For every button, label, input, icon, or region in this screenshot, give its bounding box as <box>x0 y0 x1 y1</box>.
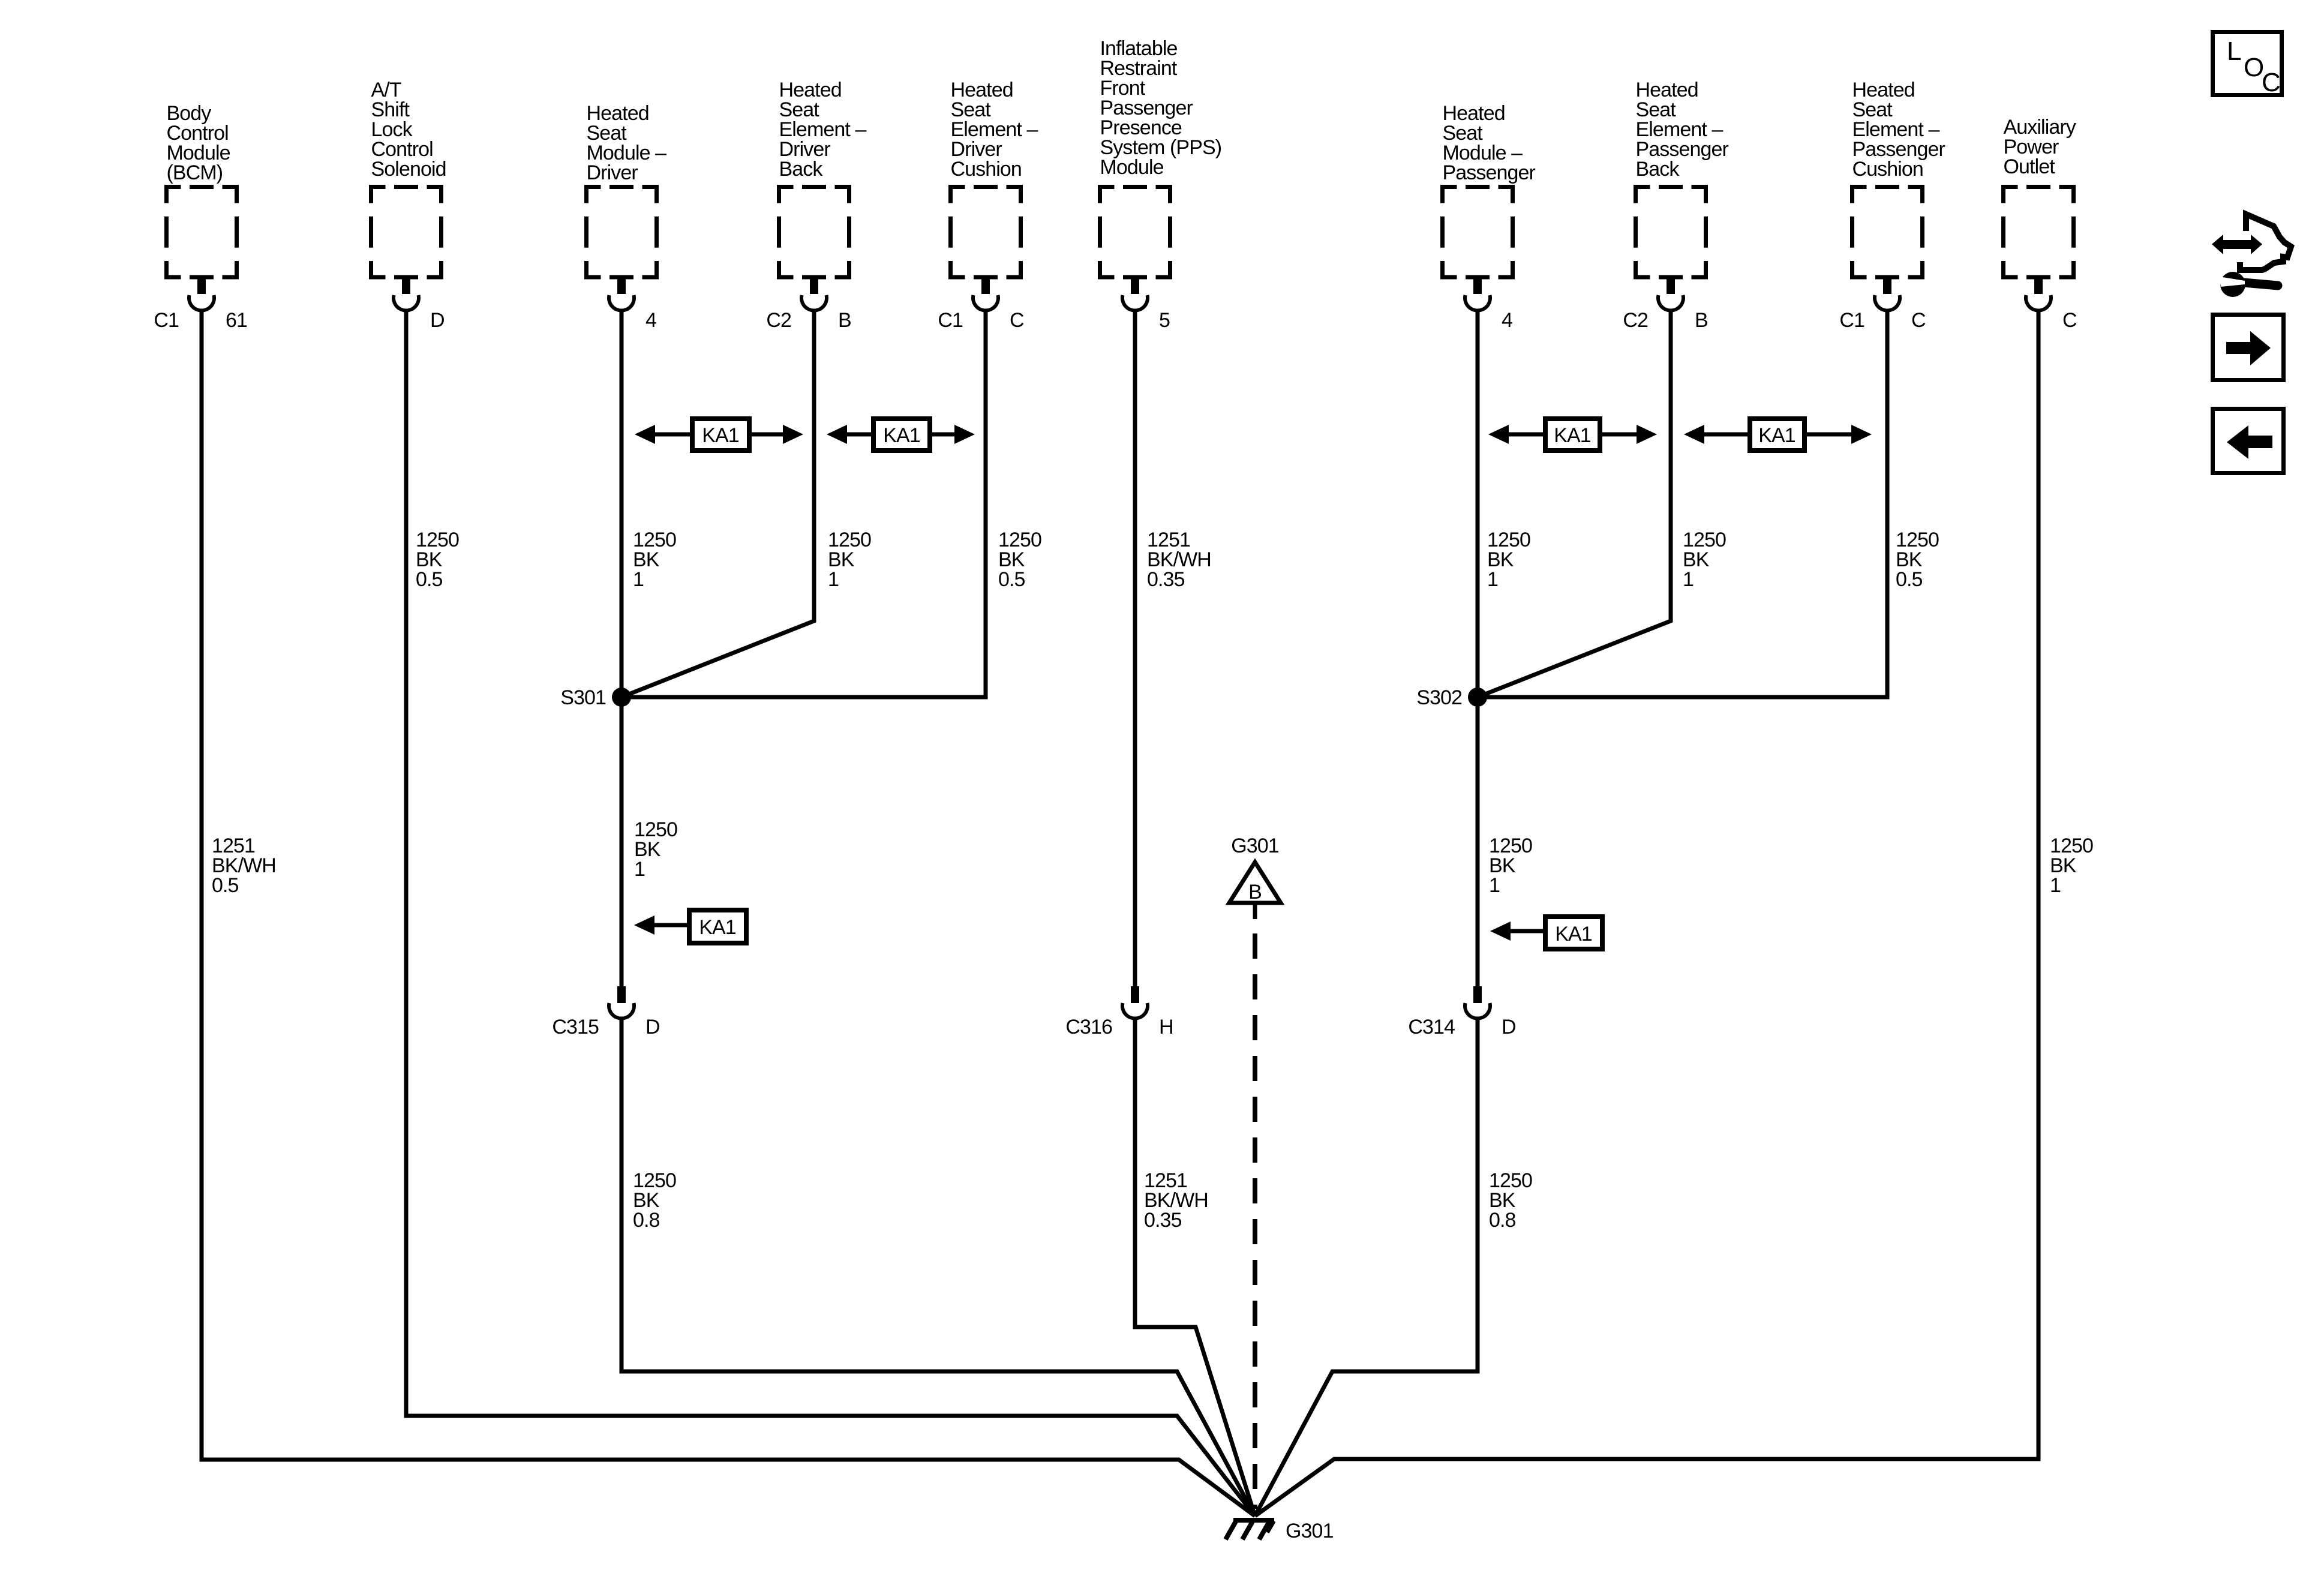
svg-text:L: L <box>2227 37 2241 66</box>
svg-text:1: 1 <box>633 568 644 591</box>
component Heated Seat Module - Driver: dashed box <box>587 187 657 278</box>
svg-text:1: 1 <box>828 568 839 591</box>
svg-text:0.8: 0.8 <box>633 1209 660 1232</box>
svg-text:B: B <box>838 309 851 332</box>
connector C315 symbol <box>617 986 626 1003</box>
svg-text:S302: S302 <box>1416 686 1462 709</box>
svg-text:KA1: KA1 <box>699 916 736 939</box>
harness arrow KA1 right toward driver cushion wire <box>932 433 954 437</box>
svg-text:Cushion: Cushion <box>1852 158 1923 181</box>
svg-text:C: C <box>2062 309 2077 332</box>
connector pin symbol at Heated Seat Element - Passenger Back <box>1667 277 1675 294</box>
ground reference triangle G301 (B) <box>1229 862 1281 903</box>
svg-text:C315: C315 <box>552 1016 599 1038</box>
svg-text:B: B <box>1248 881 1262 903</box>
svg-text:C: C <box>1911 309 1926 332</box>
connector pin symbol at A/T Shift Lock Control Solenoid <box>402 277 410 294</box>
svg-text:4: 4 <box>645 309 656 332</box>
svg-text:0.8: 0.8 <box>1489 1209 1516 1232</box>
svg-text:C: C <box>1010 309 1024 332</box>
svg-text:C316: C316 <box>1065 1016 1112 1038</box>
legend icon: harness routing / tool symbol <box>2212 235 2262 254</box>
component Body Control Module (BCM): dashed box <box>167 187 237 278</box>
wrench part of tool icon <box>2220 272 2245 297</box>
label box KA1 (between driver back and driver cushion) <box>873 419 930 451</box>
svg-text:S301: S301 <box>560 686 606 709</box>
wire 1251 BK/WH 0.35 from C316 H to G301 <box>1135 1020 1255 1516</box>
harness arrow KA1 toward C314 wire <box>1511 929 1543 933</box>
svg-text:Back: Back <box>779 158 824 181</box>
harness arrow KA1 right toward driver back wire <box>752 433 783 437</box>
harness arrow KA1 right toward passenger back wire <box>1602 433 1637 437</box>
splice S301 junction dot <box>612 688 631 707</box>
legend icon: arrow right box <box>2213 315 2284 380</box>
label box KA1 (between heated seat module driver and element back) <box>692 419 749 451</box>
harness arrow KA1 left toward driver module wire <box>645 433 690 437</box>
wire 1250 BK 1 from Auxiliary Power Outlet C to G301 <box>1255 310 2038 1516</box>
svg-text:1: 1 <box>1489 874 1500 897</box>
wire dashed ground lead from triangle B to G301 <box>1253 933 1257 1509</box>
harness arrow KA1 left toward driver back wire <box>847 433 871 437</box>
connector pin symbol at Auxiliary Power Outlet <box>2034 277 2043 294</box>
connector pin symbol at Heated Seat Element - Passenger Cushion <box>1883 277 1891 294</box>
component A/T Shift Lock Control Solenoid: dashed box <box>371 187 442 278</box>
wire 1250 BK 0.5 from Heated Seat Element Driver Cushion C to S301 <box>621 310 986 697</box>
svg-text:D: D <box>1502 1016 1516 1038</box>
connector C316 symbol <box>1131 986 1139 1003</box>
svg-text:0.5: 0.5 <box>1896 568 1923 591</box>
wire solid stem below triangle <box>1253 905 1257 919</box>
svg-text:Solenoid: Solenoid <box>371 158 446 181</box>
svg-text:0.5: 0.5 <box>212 874 239 897</box>
svg-text:4: 4 <box>1502 309 1512 332</box>
svg-text:C2: C2 <box>1623 309 1648 332</box>
svg-text:C1: C1 <box>154 309 179 332</box>
connector pin symbol at Heated Seat Element - Driver Back <box>810 277 818 294</box>
svg-text:C1: C1 <box>938 309 963 332</box>
wire 1251 BK/WH 0.5 from BCM C1-61 to G301 <box>202 310 1255 1516</box>
svg-text:0.35: 0.35 <box>1147 568 1185 591</box>
svg-text:Module: Module <box>1100 156 1164 179</box>
legend icon LOC box <box>2213 32 2282 95</box>
ground G301 chassis symbol <box>1233 1518 1274 1523</box>
svg-text:1: 1 <box>1487 568 1498 591</box>
label box KA1 (above C314) <box>1545 917 1602 949</box>
component Heated Seat Element - Passenger Back: dashed box <box>1636 187 1706 278</box>
connector pin symbol at Inflatable Restraint Front Passenger Presence System (PPS) Module <box>1131 277 1139 294</box>
splice S302 junction dot <box>1468 688 1487 707</box>
svg-text:O: O <box>2244 53 2263 82</box>
svg-text:C1: C1 <box>1839 309 1864 332</box>
label box KA1 (above C315) <box>689 910 746 943</box>
svg-text:Back: Back <box>1636 158 1680 181</box>
connector pin symbol at Heated Seat Module - Driver <box>617 277 626 294</box>
svg-text:0.35: 0.35 <box>1144 1209 1182 1232</box>
wire 1250 BK 0.8 from C314 D to G301 <box>1255 1020 1478 1516</box>
label box KA1 (between passenger back and passenger cushion) <box>1750 419 1804 451</box>
svg-text:KA1: KA1 <box>1758 424 1795 447</box>
svg-text:Cushion: Cushion <box>951 158 1022 181</box>
svg-text:KA1: KA1 <box>1555 923 1592 945</box>
svg-text:KA1: KA1 <box>883 424 920 447</box>
svg-text:C314: C314 <box>1408 1016 1455 1038</box>
svg-text:B: B <box>1695 309 1708 332</box>
svg-text:Driver: Driver <box>587 161 638 184</box>
svg-text:(BCM): (BCM) <box>167 161 223 184</box>
harness arrow KA1 toward C315 wire <box>654 923 687 927</box>
wire 1250 BK 1 from Heated Seat Module Passenger pin 4 through S302 to C314 <box>1476 310 1480 987</box>
component Inflatable Restraint Front Passenger Presence System (PPS) Module: dashed box <box>1100 187 1170 278</box>
harness arrow KA1 left toward passenger back wire <box>1704 433 1747 437</box>
svg-text:Passenger: Passenger <box>1443 161 1536 184</box>
svg-text:61: 61 <box>226 309 247 332</box>
svg-text:1: 1 <box>634 858 645 881</box>
wire 1250 BK 0.5 from A/T shift lock solenoid D to G301 <box>406 310 1255 1516</box>
connector pin symbol at Heated Seat Element - Driver Cushion <box>981 277 990 294</box>
component Heated Seat Element - Passenger Cushion: dashed box <box>1852 187 1923 278</box>
harness arrow KA1 left toward passenger module wire <box>1509 433 1543 437</box>
svg-text:G301: G301 <box>1286 1520 1334 1542</box>
svg-text:5: 5 <box>1159 309 1170 332</box>
svg-text:KA1: KA1 <box>702 424 739 447</box>
svg-text:D: D <box>430 309 445 332</box>
svg-text:C: C <box>2262 68 2280 97</box>
component Heated Seat Element - Driver Cushion: dashed box <box>951 187 1021 278</box>
svg-text:0.5: 0.5 <box>416 568 443 591</box>
svg-text:D: D <box>645 1016 660 1038</box>
component Auxiliary Power Outlet: dashed box <box>2004 187 2074 278</box>
svg-text:KA1: KA1 <box>1554 424 1591 447</box>
connector pin symbol at Heated Seat Module - Passenger <box>1473 277 1482 294</box>
label box KA1 (between passenger module and passenger back) <box>1545 419 1600 451</box>
legend icon: arrow left box <box>2213 409 2284 473</box>
wire 1251 BK/WH 0.35 from PPS Module pin 5 to C316 <box>1133 310 1137 987</box>
component Heated Seat Module - Passenger: dashed box <box>1443 187 1513 278</box>
svg-text:G301: G301 <box>1231 834 1279 857</box>
harness arrow KA1 right toward passenger cushion wire <box>1807 433 1851 437</box>
wire 1250 BK 1 from Heated Seat Element Passenger Back B to S302 <box>1478 310 1671 697</box>
wire 1250 BK 0.5 from Heated Seat Element Passenger Cushion C to S302 <box>1478 310 1887 697</box>
connector pin symbol at Body Control Module (BCM) <box>197 277 206 294</box>
wire 1250 BK 1 from Heated Seat Module Driver pin 4 through S301 to C315 <box>620 310 624 987</box>
svg-text:C2: C2 <box>766 309 791 332</box>
svg-text:H: H <box>1159 1016 1173 1038</box>
component Heated Seat Element - Driver Back: dashed box <box>779 187 849 278</box>
wire 1250 BK 0.8 from C315 D to G301 <box>621 1020 1255 1516</box>
svg-text:0.5: 0.5 <box>998 568 1025 591</box>
svg-text:1: 1 <box>1683 568 1694 591</box>
connector C314 symbol <box>1473 986 1482 1003</box>
svg-text:1: 1 <box>2050 874 2061 897</box>
svg-text:Outlet: Outlet <box>2004 155 2056 178</box>
wire 1250 BK 1 from Heated Seat Element Driver Back B to S301 <box>621 310 814 697</box>
